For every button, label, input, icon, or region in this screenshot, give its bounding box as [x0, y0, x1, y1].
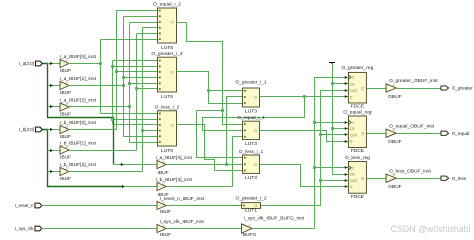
wire stub O_greater_i_3 to LUT3#1 r1 — [209, 90, 243, 92]
LUT3 O_equal_i_1 — [237, 115, 265, 147]
junction dot a0 — [99, 62, 102, 65]
wire net O_equal_i_1 to D — [260, 131, 349, 142]
wire net I_b_IBUF[0] — [69, 129, 117, 131]
svg-text:O: O — [171, 71, 174, 75]
wire-end arrow CLR2 — [345, 133, 347, 136]
output port O_equal — [441, 131, 449, 135]
svg-text:O_equal: O_equal — [452, 131, 470, 136]
junction dot clear CLR2 — [319, 133, 322, 136]
wire tap b1 — [48, 150, 61, 152]
svg-text:IBUF: IBUF — [158, 170, 169, 176]
junction ripper arrow a0 — [50, 62, 53, 65]
wire stub CE1 — [333, 83, 349, 85]
wire trunk t8 — [142, 28, 144, 172]
wire stub box3 r4 — [143, 130, 158, 132]
wire-end arrow C2 — [345, 121, 347, 124]
wire net clear trunk — [261, 91, 349, 206]
LUT3 O_less_i_1 — [239, 149, 264, 181]
wire tap a0 — [48, 63, 61, 65]
wire tap b2 — [48, 171, 61, 173]
wire stub box1 r6 — [101, 39, 158, 41]
wire-end arrow D2 — [345, 140, 347, 143]
wire stub box1 r4 — [143, 27, 158, 29]
buffer I_a_IBUF[1]_inst — [60, 80, 69, 89]
input port I_b[3:0] — [36, 127, 43, 132]
svg-text:CE: CE — [350, 127, 355, 131]
svg-text:LUT1: LUT1 — [245, 208, 257, 214]
wire-end arrow CLR3 — [345, 179, 347, 182]
junction dot O_greater_i_1 feedback — [303, 95, 306, 98]
wire stub box2 r1 — [113, 60, 158, 62]
wire net O_equal_i_2 branch to LUT3#3 — [197, 111, 243, 158]
junction dot O_equal_i_2 branch — [221, 109, 224, 112]
svg-text:LUT6: LUT6 — [161, 45, 173, 51]
wire net O_greater_i_3 — [177, 72, 243, 104]
wire stub box1 r3 — [130, 22, 158, 24]
junction dot t4-box2r3 — [115, 70, 118, 73]
wire-end arrow CE1 — [345, 82, 347, 85]
wire stub clk C2 — [315, 122, 349, 124]
buffer O_less_OBUF_inst — [386, 173, 396, 182]
svg-text:O_greater_i_1: O_greater_i_1 — [235, 80, 267, 86]
svg-text:I_a_IBUF[3]_inst: I_a_IBUF[3]_inst — [156, 155, 193, 161]
svg-text:Q: Q — [361, 87, 364, 91]
svg-text:O: O — [254, 129, 257, 133]
svg-text:I_b_IBUF[3]_inst: I_b_IBUF[3]_inst — [156, 177, 193, 183]
wire branch I_a_IBUF[3] up — [227, 97, 243, 165]
svg-text:I_reset_n_IBUF_inst: I_reset_n_IBUF_inst — [160, 196, 205, 202]
wire net O_equal_reg Q — [367, 133, 387, 135]
svg-text:LUT3: LUT3 — [245, 141, 257, 147]
LUT1 O_greater_i_2 — [242, 203, 261, 209]
output port O_greater — [441, 86, 449, 90]
svg-text:IBUF: IBUF — [60, 111, 71, 117]
wire trunk t3 — [112, 61, 114, 125]
wire into I_a_IBUF[3] — [114, 164, 157, 166]
wire net I_a_IBUF[3] — [167, 164, 243, 166]
buffer O_equal_OBUF_inst — [386, 128, 396, 137]
LUT6 O_greater_i_3 — [151, 51, 183, 100]
wire net O_greater_i_1 feedback — [203, 97, 305, 131]
wire-end arrow I_b_IBUF[3] — [122, 185, 125, 188]
svg-text:FDCE: FDCE — [351, 104, 365, 110]
wire net I_b_IBUF[3] — [167, 137, 243, 187]
junction dot clk C2 — [313, 121, 316, 124]
wire net O_equal_i_2 — [177, 23, 243, 125]
svg-text:O_equal_OBUF_inst: O_equal_OBUF_inst — [389, 123, 435, 129]
svg-text:CLR: CLR — [350, 89, 357, 93]
wire stub clear CLR3 — [321, 180, 349, 182]
wire stub box2 r5 — [130, 83, 158, 85]
LUT6 O_equal_i_2 — [153, 2, 181, 51]
wire tap a2 — [48, 106, 61, 108]
wire bus I_a[3:0] — [43, 64, 114, 165]
svg-text:O_greater_i_3: O_greater_i_3 — [151, 51, 183, 57]
wire trunk t4 — [116, 11, 118, 130]
LUT3 O_greater_i_1 — [235, 80, 267, 115]
svg-text:OBUF: OBUF — [388, 139, 402, 145]
wire stub box1 r5 — [137, 33, 158, 35]
wire net O_less_i_1 to D — [260, 165, 349, 187]
svg-text:O: O — [254, 96, 257, 100]
svg-text:FDCE: FDCE — [351, 148, 365, 154]
svg-text:O_less_OBUF_inst: O_less_OBUF_inst — [389, 168, 431, 174]
svg-text:OBUF: OBUF — [388, 184, 402, 190]
wire net O_equal_OBUF — [397, 133, 441, 135]
buffer I_b_IBUF[3]_inst — [157, 181, 166, 190]
wire net O_greater_i_1 to D — [260, 96, 349, 98]
flip-flop FDCE O_less_reg — [345, 155, 370, 200]
svg-text:IBUF: IBUF — [60, 68, 71, 74]
wire net I_a_IBUF[2] — [69, 106, 130, 108]
wire net I_reset_n_IBUF — [167, 205, 242, 207]
wire net CE trunk — [333, 64, 349, 175]
svg-text:I_reset_n: I_reset_n — [15, 203, 34, 208]
svg-text:IBUF: IBUF — [60, 176, 71, 182]
wire net I_a_IBUF[0] — [69, 63, 101, 65]
wire net I_b_IBUF[1] — [69, 150, 137, 152]
junction dot clk C3 — [313, 166, 316, 169]
wire net O_less_reg Q — [367, 178, 387, 180]
wire tap b0 — [48, 129, 61, 131]
wire net I_b_IBUF[2] — [69, 171, 143, 173]
svg-text:OBUF: OBUF — [388, 94, 402, 100]
wire tap a1 — [48, 85, 61, 87]
wire stub box2 r4 — [124, 77, 158, 79]
svg-text:O_greater_i_2: O_greater_i_2 — [235, 196, 267, 202]
buffer I_b_IBUF[2]_inst — [60, 166, 69, 175]
junction ripper arrow a1 — [50, 84, 53, 87]
svg-text:IBUF: IBUF — [160, 232, 171, 238]
input port I_reset_n — [35, 203, 42, 208]
wire-end arrow D1 — [345, 95, 347, 98]
svg-text:O_equal_i_1: O_equal_i_1 — [237, 115, 265, 121]
svg-text:O_less_reg: O_less_reg — [345, 155, 370, 161]
svg-text:CLR: CLR — [350, 179, 357, 183]
flip-flop FDCE O_equal_reg — [343, 110, 372, 155]
svg-text:CE: CE — [350, 173, 355, 177]
buffer I_a_IBUF[2]_inst — [60, 102, 69, 111]
wire stub box2 r3 — [117, 71, 158, 73]
svg-text:O: O — [171, 124, 174, 128]
svg-text:O_equal_i_2: O_equal_i_2 — [153, 2, 181, 8]
junction dot t5-box2r4 — [122, 76, 125, 79]
svg-text:LUT3: LUT3 — [245, 175, 257, 181]
wire-end arrow CE2 — [345, 127, 347, 130]
wire-end arrow D3 — [345, 185, 347, 188]
wire net O_less_OBUF — [397, 178, 441, 180]
svg-text:CSDN @w0shishabi: CSDN @w0shishabi — [391, 224, 471, 234]
input port I_a[3:0] — [36, 61, 43, 66]
wire stub clk C3 — [315, 167, 349, 169]
svg-text:IBUF: IBUF — [60, 134, 71, 140]
wire net clk trunk — [253, 78, 349, 229]
svg-text:Q: Q — [361, 132, 364, 136]
wire-end arrow CE3 — [345, 173, 347, 176]
svg-text:O_greater: O_greater — [452, 86, 474, 91]
wire stub box3 r6 — [130, 142, 158, 144]
power tie symbol VCC for CE — [329, 63, 335, 65]
junction dot O_greater_i_3 a — [207, 89, 210, 92]
svg-text:LUT3: LUT3 — [245, 109, 257, 115]
svg-text:O_greater_OBUF_inst: O_greater_OBUF_inst — [389, 78, 438, 84]
junction dot t6-box2r5 — [128, 82, 131, 85]
wire-end arrow C1 — [345, 76, 347, 79]
svg-text:FDCE: FDCE — [351, 194, 365, 200]
wire stub box3 r3 — [113, 124, 158, 126]
junction ripper arrow a2 — [50, 105, 53, 108]
buffer I_b_IBUF[1]_inst — [60, 145, 69, 154]
wire stub box3 r2 — [113, 119, 158, 121]
wire stub box1 r2 — [124, 16, 158, 18]
svg-text:O_equal_reg: O_equal_reg — [343, 110, 372, 116]
wire-end arrow CLR1 — [345, 89, 347, 92]
junction dot a2 — [128, 105, 131, 108]
wire bus I_b[3:0] — [43, 130, 122, 187]
wire stub box3 r1 — [101, 113, 158, 115]
wire trunk t5 — [123, 17, 125, 137]
svg-text:I_sys_clk_IBUF_BUFG_inst: I_sys_clk_IBUF_BUFG_inst — [244, 216, 305, 222]
wire stub box2 r2 — [113, 66, 158, 68]
junction dot I_a_IBUF[3] — [225, 163, 228, 166]
flip-flop FDCE O_greater_reg — [341, 65, 373, 110]
junction dot a1 — [122, 84, 125, 87]
svg-text:LUT6: LUT6 — [161, 148, 173, 154]
svg-text:O: O — [255, 204, 258, 208]
LUT6 O_less_i_2 — [155, 104, 180, 154]
svg-text:O_greater_reg: O_greater_reg — [341, 65, 373, 71]
wire net O_greater_reg Q — [367, 88, 387, 90]
junction ripper arrow b1 — [50, 149, 53, 152]
wire stub clear CLR2 — [321, 134, 349, 136]
svg-text:I_b[3:0]: I_b[3:0] — [19, 127, 34, 132]
svg-text:O_less_i_2: O_less_i_2 — [155, 104, 180, 110]
buffer I_sys_clk_IBUF_BUFG_inst — [242, 223, 253, 233]
wire net O_less_i_2 — [177, 125, 243, 171]
wire trunk t1 — [100, 40, 102, 114]
wire net O_greater_OBUF — [397, 88, 441, 90]
input port I_sys_clk — [35, 226, 42, 231]
junction dot t8-box3r4 — [141, 129, 144, 132]
junction ripper arrow b2 — [50, 170, 53, 173]
junction dot tc-box3r2 — [111, 118, 114, 121]
buffer I_b_IBUF[0]_inst — [60, 124, 69, 133]
wire net I_reset_n — [42, 205, 157, 207]
buffer O_greater_OBUF_inst — [386, 83, 396, 92]
wire trunk t7 — [136, 34, 138, 151]
wire net I_a_IBUF[1] — [69, 85, 124, 87]
buffer I_a_IBUF[3]_inst — [157, 159, 166, 168]
wire stub box3 r5 — [124, 136, 158, 138]
buffer I_a_IBUF[0]_inst — [60, 58, 69, 67]
svg-text:O: O — [171, 21, 174, 25]
wire stub box1 r1 — [117, 10, 158, 12]
svg-text:CE: CE — [350, 82, 355, 86]
junction dot clear CLR3 — [319, 179, 322, 182]
wire-end arrow I_a_IBUF[3] — [121, 163, 124, 166]
svg-text:BUFG: BUFG — [243, 232, 257, 238]
svg-text:LUT6: LUT6 — [161, 94, 173, 100]
output port O_less — [441, 176, 449, 180]
junction ripper arrow b0 — [50, 128, 53, 131]
buffer I_sys_clk_IBUF_inst — [157, 223, 166, 232]
junction dot tc-box2r2 — [111, 65, 114, 68]
wire trunk t6 — [129, 23, 131, 143]
wire stub CE2 — [333, 128, 349, 130]
svg-text:O_less: O_less — [452, 176, 467, 181]
wire net I_sys_clk_IBUF — [167, 228, 242, 230]
buffer I_reset_n_IBUF_inst — [157, 200, 166, 209]
svg-text:CLR: CLR — [350, 133, 357, 137]
wire into I_b_IBUF[3] — [122, 186, 157, 188]
junction dot t7-box2r6 — [135, 87, 138, 90]
svg-text:I_a[3:0]: I_a[3:0] — [19, 61, 34, 66]
svg-text:IBUF: IBUF — [160, 209, 171, 215]
svg-text:I_sys_clk_IBUF_inst: I_sys_clk_IBUF_inst — [160, 219, 205, 225]
svg-text:Q: Q — [361, 177, 364, 181]
svg-text:O_less_i_1: O_less_i_1 — [239, 149, 264, 155]
svg-text:O: O — [254, 163, 257, 167]
wire-end arrow C3 — [345, 166, 347, 169]
svg-text:IBUF: IBUF — [60, 90, 71, 96]
junction dot CE2 — [331, 127, 334, 130]
svg-text:I_sys_clk: I_sys_clk — [15, 226, 34, 231]
wire stub box2 r6 — [137, 88, 158, 90]
wire net I_sys_clk — [42, 228, 157, 230]
junction dot CE1 — [331, 82, 334, 85]
svg-text:IBUF: IBUF — [60, 154, 71, 160]
